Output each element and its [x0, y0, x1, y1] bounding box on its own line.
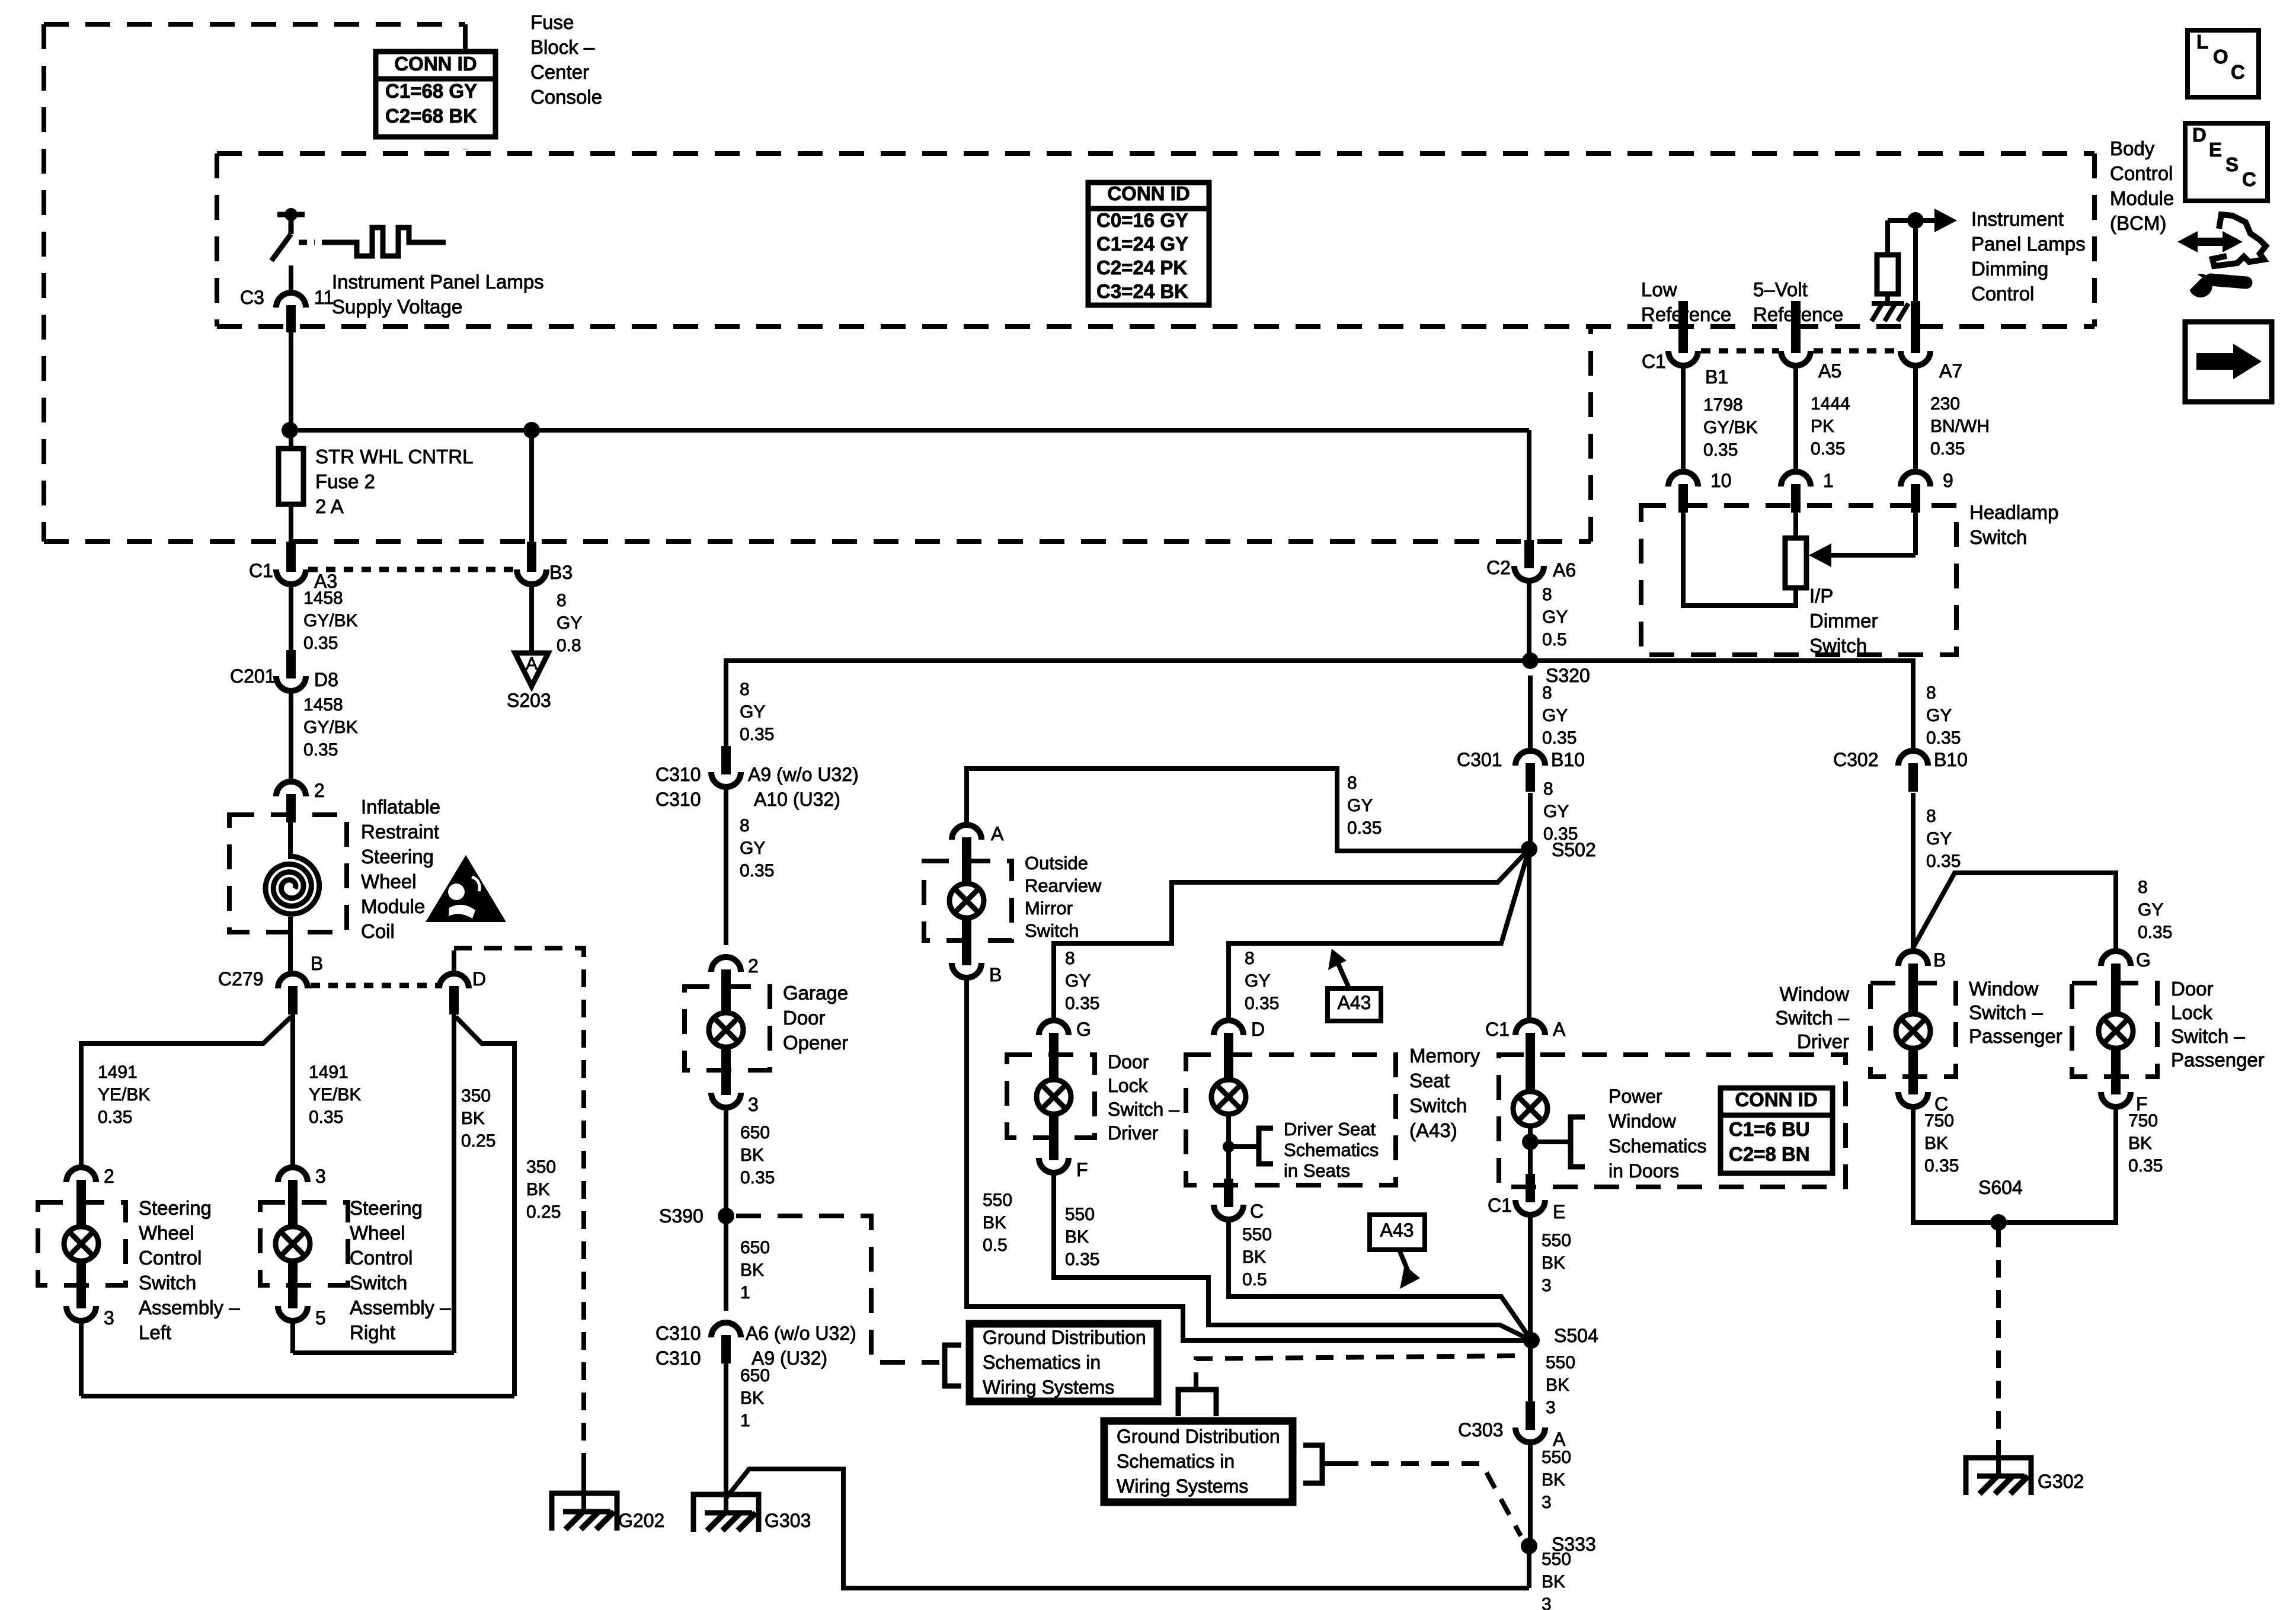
svg-text:S502: S502 [1552, 839, 1596, 860]
svg-text:in Seats: in Seats [1284, 1160, 1350, 1181]
svg-text:Door: Door [1108, 1051, 1149, 1073]
long wire S320 right to C302 branch [1530, 661, 1913, 751]
svg-text:10: 10 [1710, 470, 1732, 491]
svg-text:750: 750 [1924, 1111, 1954, 1131]
svg-text:1458: 1458 [303, 588, 343, 608]
wire C302 to window B [1911, 793, 1916, 952]
svg-text:Rearview: Rearview [1025, 875, 1102, 896]
wire left pin3 down [79, 1321, 84, 1396]
svg-text:C1: C1 [249, 560, 273, 581]
wire F to S604 [1998, 1107, 2116, 1222]
svg-text:in Doors: in Doors [1609, 1160, 1679, 1182]
wire B3 to S203 [529, 584, 534, 653]
svg-text:YE/BK: YE/BK [98, 1085, 150, 1105]
connector pin 1 [1781, 472, 1811, 513]
svg-text:S203: S203 [507, 690, 551, 711]
svg-text:Switch: Switch [1025, 920, 1079, 941]
svg-text:BK: BK [1924, 1134, 1948, 1153]
svg-text:3: 3 [748, 1094, 759, 1115]
svg-text:C2=8 BN: C2=8 BN [1729, 1143, 1810, 1165]
svg-text:B: B [311, 953, 323, 974]
svg-text:Control: Control [350, 1247, 412, 1269]
svg-text:650: 650 [740, 1238, 770, 1257]
wire B to left switch pin2 [81, 1017, 291, 1170]
svg-text:2: 2 [104, 1166, 114, 1187]
junction driver seat [1223, 1141, 1235, 1153]
svg-text:Opener: Opener [783, 1032, 848, 1054]
svg-text:PK: PK [1811, 417, 1834, 436]
dotted connector line C1 [308, 567, 514, 572]
svg-text:0.25: 0.25 [526, 1202, 561, 1222]
svg-text:550: 550 [1242, 1225, 1272, 1244]
svg-text:BK: BK [740, 1388, 764, 1408]
connector mirror A [952, 825, 981, 866]
svg-text:Assembly –: Assembly – [350, 1297, 451, 1318]
svg-text:A43: A43 [1380, 1219, 1414, 1241]
wire mirror A [967, 769, 1522, 851]
svg-text:3: 3 [1542, 1276, 1552, 1295]
svg-text:Restraint: Restraint [361, 821, 439, 843]
wire C303 to S333 [1528, 1442, 1533, 1546]
junction to B3 [523, 422, 540, 438]
svg-text:0.35: 0.35 [740, 861, 774, 881]
connector C310 A9/A10 [721, 746, 731, 772]
svg-text:1798: 1798 [1703, 395, 1743, 415]
svg-text:8: 8 [1926, 806, 1936, 826]
svg-text:GY: GY [1542, 607, 1568, 627]
wire C to S604 [1913, 1107, 1998, 1222]
svg-text:3: 3 [315, 1166, 326, 1187]
svg-text:Dimmer: Dimmer [1809, 610, 1878, 632]
svg-text:2: 2 [748, 955, 759, 977]
connector C303 A [1526, 1401, 1535, 1427]
connector C310 A6/A9 [711, 1323, 741, 1363]
dashed wire D to G202 [454, 948, 584, 1470]
wire fuse to C1 [289, 504, 293, 545]
wire C301 to S502 [1528, 793, 1533, 849]
icon vehicle with arrow [2177, 215, 2266, 266]
splice S390 [718, 1208, 734, 1224]
connector window passenger C [1898, 1066, 1928, 1107]
splice S504 [1523, 1332, 1540, 1349]
svg-text:YE/BK: YE/BK [309, 1085, 361, 1105]
svg-text:Right: Right [350, 1321, 395, 1343]
dashed link [299, 240, 315, 245]
connector doorlock passenger F [2101, 1066, 2131, 1107]
svg-text:Lock: Lock [2171, 1001, 2212, 1023]
svg-text:Seat: Seat [1409, 1070, 1450, 1092]
svg-text:D8: D8 [314, 669, 338, 690]
svg-text:BK: BK [983, 1213, 1006, 1233]
svg-text:0.35: 0.35 [1924, 1156, 1959, 1176]
svg-text:Passenger: Passenger [1969, 1025, 2062, 1047]
svg-text:I/P: I/P [1809, 585, 1833, 607]
wire S504 to C303 [1528, 1347, 1533, 1404]
bracket ground dist 2 right [1303, 1445, 1322, 1483]
svg-text:GY/BK: GY/BK [303, 611, 358, 630]
svg-text:D: D [472, 968, 486, 990]
svg-text:230: 230 [1930, 394, 1960, 414]
svg-text:C2=68 BK: C2=68 BK [385, 105, 477, 127]
memory seat box [1499, 1055, 1846, 1187]
svg-text:1491: 1491 [98, 1062, 137, 1082]
dashed wire box2 to S333 [1322, 1461, 1341, 1466]
svg-text:Window: Window [1780, 983, 1850, 1005]
svg-text:C279: C279 [218, 968, 264, 990]
wire S502 to driver seat D [1229, 849, 1529, 1023]
svg-text:GY: GY [2138, 900, 2163, 920]
door lock passenger box [2072, 983, 2157, 1077]
svg-text:11: 11 [314, 287, 334, 308]
svg-text:550: 550 [1542, 1231, 1571, 1250]
lamp left switch [64, 1227, 98, 1261]
ground distribution box 1 [970, 1324, 1157, 1401]
dashed wire S604 to G302 [1996, 1230, 2001, 1440]
wire junction to B3 [529, 430, 534, 545]
svg-text:1: 1 [740, 1283, 750, 1302]
svg-text:1: 1 [740, 1411, 750, 1430]
splice S604 [1990, 1214, 2007, 1231]
svg-text:A: A [1553, 1429, 1566, 1450]
headlamp switch dashed box [1641, 505, 1956, 655]
svg-text:0.35: 0.35 [98, 1108, 132, 1127]
svg-text:0.35: 0.35 [1542, 728, 1576, 748]
svg-text:Mirror: Mirror [1025, 898, 1073, 918]
svg-text:3: 3 [104, 1307, 114, 1329]
connector memory C1 E [1526, 1181, 1535, 1200]
airbag warning triangle [426, 855, 506, 922]
connector B3 [527, 542, 536, 569]
svg-text:0.35: 0.35 [1065, 1250, 1099, 1269]
svg-text:CONN ID: CONN ID [394, 53, 477, 75]
svg-text:Switch –: Switch – [1969, 1001, 2043, 1023]
CONN ID box window switches [1721, 1088, 1833, 1173]
svg-text:0.25: 0.25 [461, 1131, 495, 1151]
svg-text:550: 550 [1542, 1550, 1571, 1569]
svg-text:C2: C2 [1486, 557, 1511, 578]
svg-text:C: C [1250, 1201, 1264, 1222]
svg-text:C3=24 BK: C3=24 BK [1096, 280, 1188, 302]
svg-text:8: 8 [1926, 683, 1936, 703]
svg-text:C310: C310 [655, 764, 701, 785]
wire S333 to bottom run [1527, 1546, 1531, 1588]
PWM waveform [322, 228, 446, 256]
svg-text:C: C [2242, 168, 2256, 190]
svg-text:Window: Window [1609, 1110, 1677, 1132]
svg-text:C1=6 BU: C1=6 BU [1729, 1118, 1810, 1140]
ground below resistor [1872, 294, 1908, 321]
wire C310 down [724, 787, 728, 945]
svg-text:G303: G303 [765, 1510, 811, 1531]
wire D to left pin3 return [456, 1017, 514, 1396]
svg-text:Reference: Reference [1641, 303, 1731, 325]
lamp right switch [276, 1227, 310, 1261]
svg-text:BK: BK [1546, 1375, 1569, 1395]
svg-text:Panel Lamps: Panel Lamps [1971, 233, 2086, 255]
svg-text:0.35: 0.35 [303, 740, 338, 760]
bracket driver seat [1259, 1128, 1273, 1164]
svg-text:750: 750 [2128, 1111, 2158, 1131]
wire left pin3 right [81, 1394, 514, 1398]
svg-text:B10: B10 [1551, 749, 1585, 770]
bracket ground dist 1 [945, 1345, 961, 1386]
svg-text:C1=68 GY: C1=68 GY [385, 80, 477, 102]
svg-text:Control: Control [139, 1247, 202, 1269]
resistor BCM dimming [1877, 255, 1898, 294]
svg-text:2 A: 2 A [315, 495, 344, 517]
door lock driver box [1007, 1055, 1095, 1138]
svg-text:650: 650 [740, 1123, 770, 1142]
svg-text:Control: Control [2110, 162, 2173, 184]
svg-text:C201: C201 [230, 665, 276, 687]
connector C2 A6 [1524, 540, 1534, 566]
splice S333 [1521, 1538, 1537, 1554]
svg-text:8: 8 [1065, 949, 1075, 968]
svg-text:0.35: 0.35 [1926, 728, 1961, 748]
CONN ID box BCM [1088, 183, 1209, 305]
svg-text:GY/BK: GY/BK [303, 718, 358, 737]
svg-text:A5: A5 [1818, 360, 1841, 382]
svg-text:GY: GY [1926, 706, 1952, 725]
wire S502 to door lock driver G [1054, 849, 1529, 1023]
svg-text:0.35: 0.35 [1930, 439, 1965, 459]
svg-text:8: 8 [1542, 683, 1552, 703]
lamp memory seat [1513, 1092, 1547, 1126]
svg-text:S320: S320 [1546, 665, 1590, 686]
svg-text:Schematics: Schematics [1284, 1140, 1379, 1160]
splice S320 [1522, 652, 1539, 669]
svg-text:Switch –: Switch – [1775, 1007, 1849, 1029]
svg-text:Switch –: Switch – [1108, 1099, 1179, 1120]
off-page triangle A S203 [515, 653, 548, 686]
svg-text:G: G [1076, 1019, 1091, 1040]
svg-text:CONN ID: CONN ID [1107, 183, 1189, 204]
svg-text:C2=24 PK: C2=24 PK [1096, 257, 1187, 279]
svg-text:0.35: 0.35 [303, 633, 338, 653]
svg-text:8: 8 [1245, 949, 1255, 968]
svg-text:CONN ID: CONN ID [1735, 1089, 1817, 1110]
mirror switch box [924, 861, 1012, 940]
svg-text:S: S [2225, 153, 2239, 175]
connector doorlock driver G [1039, 1020, 1069, 1061]
lamp mirror switch [949, 884, 984, 918]
svg-text:E: E [1553, 1201, 1565, 1222]
svg-text:B10: B10 [1934, 749, 1968, 770]
svg-text:550: 550 [1542, 1448, 1571, 1467]
svg-text:1491: 1491 [309, 1062, 348, 1082]
svg-text:350: 350 [526, 1157, 556, 1177]
svg-text:Fuse 2: Fuse 2 [315, 470, 375, 492]
wire S390 to C310 [724, 1223, 728, 1311]
branch to bottom wire [726, 1469, 1529, 1588]
connector doorlock driver F [1039, 1132, 1069, 1173]
long wire S320 left to C310 branch [726, 661, 1530, 749]
svg-text:A: A [526, 654, 538, 674]
svg-text:Garage: Garage [783, 982, 848, 1004]
wire C3 to junction [289, 332, 293, 430]
svg-text:C0=16 GY: C0=16 GY [1096, 209, 1188, 231]
svg-text:E: E [2209, 139, 2222, 161]
wire S502 to memory seat A [1527, 856, 1531, 1022]
coil box dashed [229, 815, 347, 932]
svg-text:0.35: 0.35 [1703, 440, 1738, 460]
svg-text:B: B [989, 964, 1002, 985]
svg-text:C302: C302 [1833, 749, 1879, 770]
svg-text:(BCM): (BCM) [2110, 212, 2166, 234]
svg-text:C: C [2231, 61, 2245, 83]
svg-text:Driver: Driver [1108, 1122, 1159, 1144]
svg-text:S604: S604 [1978, 1177, 2023, 1198]
wire E to S504 [1528, 1215, 1533, 1340]
branch to door lock passenger G [1913, 873, 2116, 952]
svg-text:BK: BK [1542, 1253, 1565, 1273]
svg-text:Switch: Switch [1969, 526, 2027, 548]
junction dimming control [1907, 212, 1924, 229]
svg-text:Headlamp: Headlamp [1969, 501, 2058, 523]
svg-text:Driver: Driver [1797, 1030, 1849, 1052]
connector pin 9 [1901, 472, 1930, 513]
svg-text:Switch –: Switch – [2171, 1025, 2245, 1047]
svg-text:0.35: 0.35 [2138, 923, 2172, 942]
left switch pin 2 [66, 1167, 96, 1208]
BCM dimming output switch symbol [277, 212, 305, 217]
wire C310 to G303 [724, 1363, 728, 1512]
svg-text:350: 350 [461, 1086, 491, 1106]
svg-text:BK: BK [1542, 1470, 1565, 1490]
svg-text:Instrument: Instrument [1971, 208, 2064, 230]
svg-text:GY: GY [1543, 802, 1569, 821]
svg-text:Outside: Outside [1025, 853, 1088, 873]
svg-text:0.35: 0.35 [2128, 1156, 2163, 1176]
CONN ID box fuse block [376, 52, 495, 137]
svg-text:Driver Seat: Driver Seat [1284, 1119, 1376, 1140]
connector seat C [1224, 1179, 1233, 1205]
junction memory seat [1522, 1134, 1539, 1150]
svg-text:Switch: Switch [1809, 635, 1867, 657]
svg-text:C1=24 GY: C1=24 GY [1096, 233, 1188, 255]
driver seat box [1186, 1055, 1396, 1185]
inflatable restraint coil [288, 822, 293, 859]
svg-text:Block –: Block – [530, 36, 595, 58]
svg-text:D: D [1251, 1019, 1265, 1040]
svg-text:F: F [1076, 1159, 1088, 1180]
connector garage pin 2 [711, 957, 741, 998]
switch lever [271, 234, 291, 261]
svg-text:BK: BK [740, 1260, 764, 1280]
fuse STR WHL CNTRL Fuse 2 2A [279, 449, 303, 504]
svg-text:C3: C3 [240, 287, 264, 308]
svg-text:550: 550 [983, 1190, 1012, 1210]
svg-text:Switch: Switch [1409, 1094, 1467, 1116]
connector A5 [1791, 301, 1801, 351]
svg-text:8: 8 [1542, 585, 1552, 604]
wire C to S504 [1229, 1219, 1531, 1340]
svg-text:8: 8 [557, 591, 567, 610]
connector memory C1 A [1515, 1020, 1545, 1061]
svg-text:Steering: Steering [361, 846, 434, 868]
svg-text:0.8: 0.8 [557, 636, 581, 655]
connector C3 pin 11 [276, 293, 306, 332]
svg-text:GY: GY [740, 702, 765, 722]
svg-text:BK: BK [1242, 1247, 1266, 1267]
svg-text:A6 (w/o U32): A6 (w/o U32) [746, 1323, 856, 1344]
wire junction to fuse [289, 430, 293, 449]
connector C279 B [278, 974, 308, 1014]
svg-text:Steering: Steering [350, 1197, 423, 1219]
svg-text:GY: GY [1245, 971, 1270, 991]
svg-text:S390: S390 [659, 1205, 703, 1227]
svg-text:5–Volt: 5–Volt [1753, 279, 1808, 300]
svg-text:0.35: 0.35 [740, 1168, 775, 1188]
svg-text:0.35: 0.35 [1245, 994, 1279, 1013]
wire D down to pin5 return [452, 1014, 456, 1353]
svg-text:A9 (w/o U32): A9 (w/o U32) [748, 764, 859, 785]
svg-text:Wiring Systems: Wiring Systems [983, 1377, 1114, 1398]
svg-text:Body: Body [2110, 137, 2155, 159]
svg-text:1: 1 [1823, 470, 1834, 491]
connector mirror B [952, 937, 981, 978]
svg-text:GY: GY [1065, 971, 1091, 991]
svg-text:Supply Voltage: Supply Voltage [332, 296, 462, 318]
connector window passenger B [1898, 951, 1928, 992]
right switch box [260, 1202, 348, 1285]
svg-text:0.35: 0.35 [1065, 994, 1099, 1013]
wire right pin5 down [290, 1321, 295, 1353]
wire C201 to pin2 [289, 691, 293, 783]
svg-text:0.35: 0.35 [1811, 439, 1845, 459]
main feed wire [290, 428, 1529, 433]
svg-text:Ground Distribution: Ground Distribution [1117, 1426, 1280, 1447]
svg-text:Power: Power [1609, 1086, 1662, 1107]
wire dimming to A7 [1913, 220, 1918, 303]
lamp door lock passenger [2099, 1014, 2133, 1048]
svg-text:1444: 1444 [1811, 394, 1850, 414]
svg-text:BK: BK [461, 1109, 485, 1128]
svg-text:BN/WH: BN/WH [1930, 417, 1990, 436]
svg-text:Wheel: Wheel [350, 1222, 405, 1244]
right switch pin 3 [278, 1167, 308, 1208]
svg-text:5: 5 [315, 1307, 326, 1329]
svg-text:Low: Low [1641, 279, 1677, 300]
splice S502 [1521, 841, 1537, 857]
lamp window passenger [1896, 1014, 1930, 1048]
A43 callout box 2 [1370, 1215, 1425, 1250]
dotted connector line BCM C1 [1701, 348, 1779, 354]
svg-text:C1: C1 [1485, 1019, 1510, 1040]
icon arrow box [2185, 322, 2272, 402]
svg-text:C301: C301 [1457, 749, 1502, 770]
left switch pin 3 [66, 1280, 96, 1321]
svg-text:GY: GY [1926, 829, 1952, 849]
svg-text:C1: C1 [1488, 1195, 1512, 1216]
svg-text:BK: BK [1065, 1227, 1089, 1247]
svg-text:Wiring Systems: Wiring Systems [1117, 1475, 1248, 1497]
svg-text:Control: Control [1971, 283, 2034, 305]
connector pin 10 [1668, 472, 1698, 513]
lamp garage door opener [709, 1013, 743, 1047]
svg-text:BK: BK [2128, 1134, 2152, 1153]
svg-text:0.35: 0.35 [1347, 818, 1382, 838]
connector C1 A3 [286, 542, 296, 569]
svg-text:C310: C310 [655, 1323, 701, 1344]
wire lever to C3 [289, 265, 293, 293]
lamp driver seat [1211, 1080, 1246, 1114]
right switch pin 5 [278, 1280, 308, 1321]
svg-text:3: 3 [1546, 1398, 1556, 1417]
bracket ground dist 2 top [1178, 1390, 1216, 1416]
svg-text:L: L [2196, 31, 2208, 53]
svg-text:Module: Module [361, 895, 425, 917]
